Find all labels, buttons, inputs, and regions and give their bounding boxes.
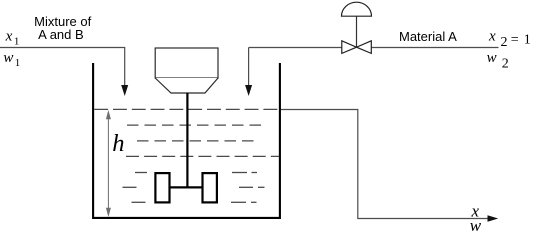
svg-text:A and B: A and B: [38, 27, 84, 42]
svg-text:Material A: Material A: [399, 29, 457, 44]
svg-text:1: 1: [524, 33, 531, 48]
svg-text:w: w: [470, 216, 482, 235]
svg-text:1: 1: [14, 36, 20, 48]
svg-text:h: h: [112, 130, 124, 157]
svg-text:=: =: [511, 33, 519, 48]
svg-text:w: w: [3, 50, 13, 66]
svg-text:w: w: [487, 50, 497, 66]
svg-text:2: 2: [501, 35, 508, 50]
svg-text:x: x: [488, 28, 496, 44]
svg-text:x: x: [5, 28, 13, 44]
svg-text:2: 2: [502, 56, 509, 71]
svg-text:1: 1: [15, 57, 20, 69]
